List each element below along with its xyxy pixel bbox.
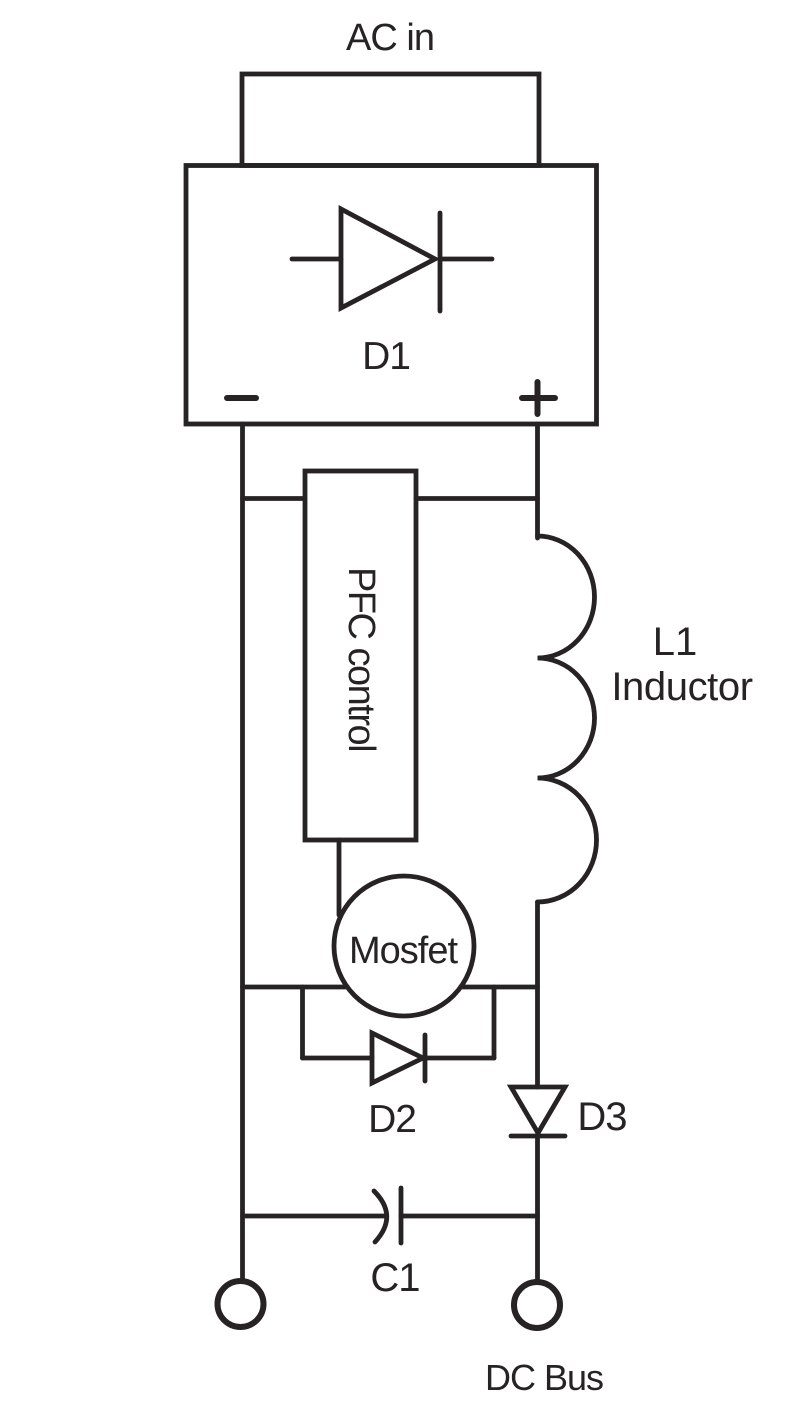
svg-text:Inductor: Inductor bbox=[611, 665, 752, 709]
capacitor C1 curved plate bbox=[374, 1191, 387, 1242]
wire PFC control to mosfet gate bbox=[337, 840, 342, 915]
svg-text:PFC control: PFC control bbox=[340, 567, 382, 751]
wire D2 loop left leg bbox=[300, 987, 305, 1058]
svg-text:DC Bus: DC Bus bbox=[485, 1357, 603, 1398]
transistor Q1 Mosfet circle bbox=[334, 876, 474, 1016]
wire switch rail y=987 bbox=[243, 985, 538, 990]
wire D3 to DC bus terminal bbox=[535, 1136, 540, 1281]
minus terminal mark bbox=[227, 395, 256, 401]
svg-text:AC in: AC in bbox=[346, 17, 434, 59]
svg-text:C1: C1 bbox=[370, 1256, 419, 1300]
bridge rectifier D1 body bbox=[186, 166, 597, 425]
wire AC input connector box bbox=[242, 74, 539, 166]
diode D1 cathode lead bbox=[440, 257, 492, 262]
wire inductor to D3 bbox=[535, 902, 540, 1087]
inductor L1 winding bbox=[538, 536, 597, 902]
diode D2 cathode bar bbox=[423, 1035, 428, 1081]
wire C1 left segment bbox=[243, 1214, 387, 1219]
diode D2 triangle bbox=[372, 1033, 423, 1083]
wire D2 loop right leg bbox=[492, 987, 497, 1058]
plus terminal mark bbox=[522, 382, 555, 414]
svg-text:D2: D2 bbox=[368, 1098, 416, 1141]
node DC bus output terminal bbox=[514, 1282, 560, 1328]
svg-text:L1: L1 bbox=[653, 620, 698, 664]
op-amp U1 PFC control box bbox=[305, 471, 416, 840]
svg-text:Mosfet: Mosfet bbox=[349, 930, 458, 972]
diode D1 anode lead bbox=[292, 257, 341, 262]
wire PFC control right feed bbox=[416, 496, 538, 501]
diode D1 cathode bar bbox=[438, 213, 443, 311]
diode D3 triangle bbox=[511, 1087, 565, 1133]
svg-text:D3: D3 bbox=[577, 1095, 626, 1139]
node negative output terminal bbox=[218, 1281, 264, 1327]
capacitor C1 straight plate bbox=[399, 1188, 404, 1243]
wire right rail from D1 to inductor bbox=[535, 424, 540, 538]
wire C1 right segment bbox=[401, 1214, 538, 1219]
wire PFC control left feed bbox=[243, 496, 306, 501]
svg-text:D1: D1 bbox=[362, 335, 410, 378]
wire D2 cathode segment bbox=[425, 1056, 494, 1061]
wire D2 anode segment bbox=[303, 1056, 373, 1061]
diode D1 triangle bbox=[341, 209, 435, 308]
wire left rail from D1 to negative terminal bbox=[240, 424, 245, 1281]
diode D3 cathode bar bbox=[511, 1134, 565, 1139]
